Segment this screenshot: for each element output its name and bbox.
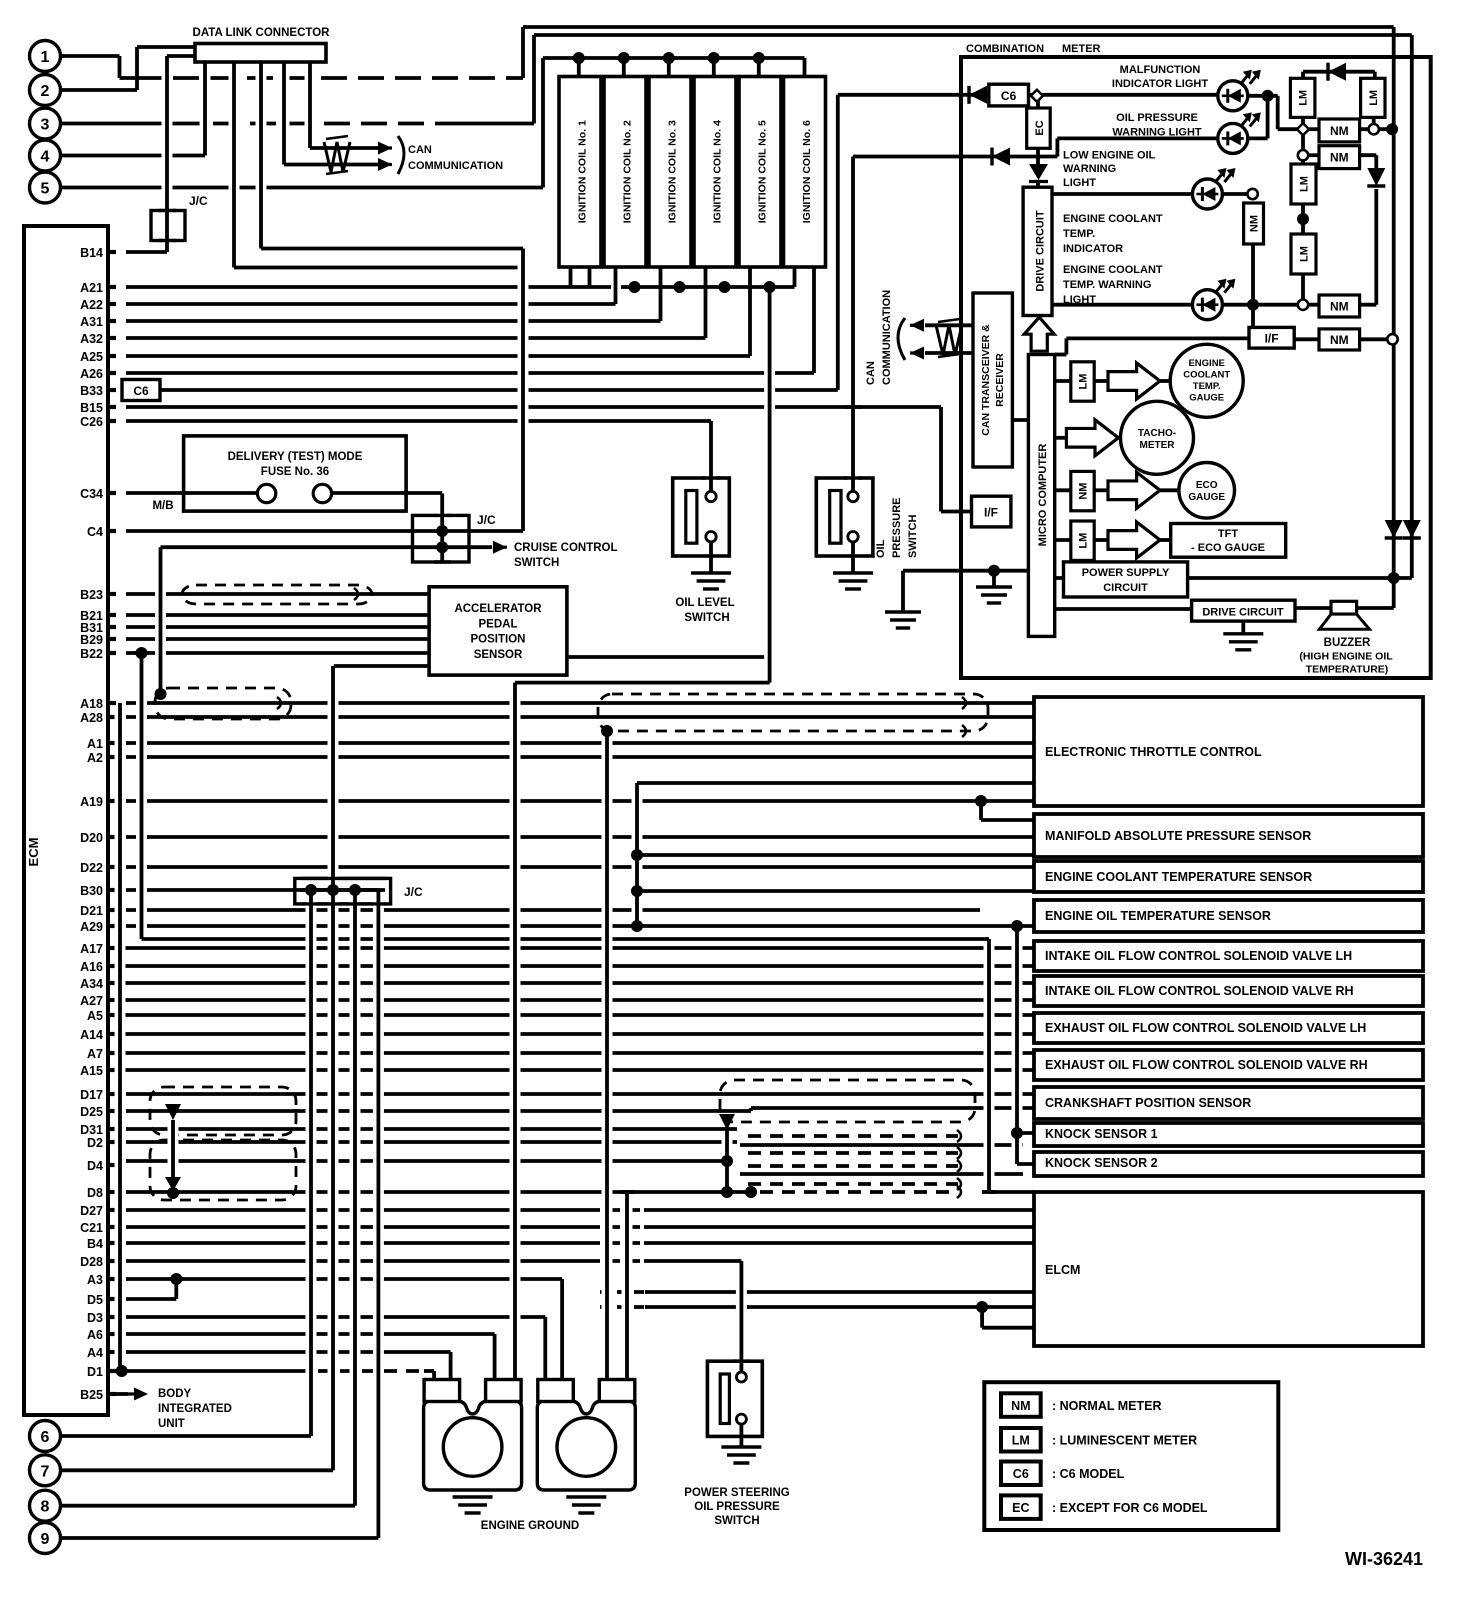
- svg-text:DATA LINK CONNECTOR: DATA LINK CONNECTOR: [193, 27, 331, 39]
- svg-text:CRUISE CONTROL: CRUISE CONTROL: [514, 542, 618, 554]
- svg-text:A34: A34: [80, 977, 103, 991]
- svg-text:A1: A1: [87, 737, 103, 751]
- svg-text:A19: A19: [80, 795, 103, 809]
- svg-text:SWITCH: SWITCH: [714, 1515, 759, 1527]
- svg-text:A26: A26: [80, 367, 103, 381]
- svg-text:D25: D25: [80, 1105, 103, 1119]
- svg-text:ENGINE OIL TEMPERATURE SENSOR: ENGINE OIL TEMPERATURE SENSOR: [1045, 909, 1271, 923]
- svg-text:3: 3: [41, 117, 50, 134]
- svg-text:D1: D1: [87, 1365, 103, 1379]
- svg-text:ENGINE: ENGINE: [1188, 358, 1224, 369]
- svg-text:COMMUNICATION: COMMUNICATION: [881, 290, 893, 385]
- svg-text:LIGHT: LIGHT: [1063, 177, 1096, 189]
- svg-text:D5: D5: [87, 1293, 103, 1307]
- svg-text:FUSE No. 36: FUSE No. 36: [261, 466, 329, 478]
- svg-text:MANIFOLD ABSOLUTE PRESSURE SEN: MANIFOLD ABSOLUTE PRESSURE SENSOR: [1045, 829, 1311, 843]
- svg-text:8: 8: [41, 1499, 50, 1516]
- svg-text:B33: B33: [80, 384, 103, 398]
- svg-text:A21: A21: [80, 281, 103, 295]
- svg-text:9: 9: [41, 1531, 50, 1548]
- svg-text:D28: D28: [80, 1255, 103, 1269]
- svg-text:METER: METER: [1140, 440, 1176, 451]
- svg-text:IGNITION COIL No. 4: IGNITION COIL No. 4: [712, 120, 724, 223]
- svg-text:I/F: I/F: [984, 506, 998, 520]
- svg-text:OIL PRESSURE: OIL PRESSURE: [1116, 112, 1198, 124]
- svg-text:ELECTRONIC THROTTLE CONTROL: ELECTRONIC THROTTLE CONTROL: [1045, 745, 1262, 759]
- svg-text:TACHO-: TACHO-: [1138, 428, 1176, 439]
- svg-text:ENGINE COOLANT: ENGINE COOLANT: [1063, 213, 1163, 225]
- svg-text:D4: D4: [87, 1159, 103, 1173]
- svg-text:A2: A2: [87, 751, 103, 765]
- svg-text:: NORMAL METER: : NORMAL METER: [1052, 1399, 1162, 1413]
- svg-text:IGNITION COIL No. 3: IGNITION COIL No. 3: [667, 120, 679, 223]
- svg-text:CAN: CAN: [865, 361, 877, 385]
- svg-text:A14: A14: [80, 1028, 103, 1042]
- svg-text:C4: C4: [87, 525, 103, 539]
- svg-text:EC: EC: [1012, 1501, 1029, 1515]
- svg-text:B30: B30: [80, 884, 103, 898]
- svg-text:DRIVE CIRCUIT: DRIVE CIRCUIT: [1035, 210, 1047, 292]
- svg-text:C6: C6: [1001, 89, 1017, 103]
- svg-text:SWITCH: SWITCH: [684, 612, 729, 624]
- svg-text:IGNITION COIL No. 1: IGNITION COIL No. 1: [577, 120, 589, 223]
- svg-text:A15: A15: [80, 1064, 103, 1078]
- svg-text:CIRCUIT: CIRCUIT: [1103, 582, 1148, 594]
- svg-text:A28: A28: [80, 711, 103, 725]
- svg-text:MALFUNCTION: MALFUNCTION: [1120, 64, 1201, 76]
- svg-text:C6: C6: [1013, 1467, 1029, 1481]
- svg-text:D2: D2: [87, 1136, 103, 1150]
- svg-text:- ECO GAUGE: - ECO GAUGE: [1191, 542, 1265, 554]
- svg-text:IGNITION COIL No. 6: IGNITION COIL No. 6: [801, 120, 813, 223]
- svg-text:A7: A7: [87, 1047, 103, 1061]
- svg-text:A29: A29: [80, 920, 103, 934]
- svg-text:INTEGRATED: INTEGRATED: [158, 1403, 232, 1415]
- svg-text:SWITCH: SWITCH: [907, 515, 919, 558]
- svg-text:7: 7: [41, 1463, 50, 1480]
- svg-text:WI-36241: WI-36241: [1345, 1549, 1423, 1569]
- svg-text:INDICATOR: INDICATOR: [1063, 243, 1123, 255]
- svg-text:NM: NM: [1330, 124, 1349, 138]
- svg-text:A16: A16: [80, 960, 103, 974]
- svg-text:ECO: ECO: [1196, 480, 1218, 491]
- svg-text:TFT: TFT: [1218, 528, 1238, 540]
- svg-text:DELIVERY (TEST) MODE: DELIVERY (TEST) MODE: [228, 451, 363, 463]
- svg-text:NM: NM: [1330, 151, 1349, 165]
- svg-text:EXHAUST OIL FLOW CONTROL SOLEN: EXHAUST OIL FLOW CONTROL SOLENOID VALVE …: [1045, 1021, 1366, 1035]
- svg-text:B4: B4: [87, 1237, 103, 1251]
- svg-text:I/F: I/F: [1265, 332, 1279, 346]
- svg-text:D3: D3: [87, 1311, 103, 1325]
- svg-text:NM: NM: [1078, 483, 1090, 500]
- svg-text:A32: A32: [80, 332, 103, 346]
- svg-text:D8: D8: [87, 1186, 103, 1200]
- svg-text:NM: NM: [1330, 300, 1349, 314]
- svg-text:D22: D22: [80, 861, 103, 875]
- svg-text:LM: LM: [1078, 374, 1090, 390]
- svg-text:NM: NM: [1249, 215, 1261, 232]
- svg-text:ACCELERATOR: ACCELERATOR: [454, 603, 542, 615]
- svg-text:J/C: J/C: [404, 885, 423, 899]
- svg-text:A18: A18: [80, 697, 103, 711]
- svg-text:GAUGE: GAUGE: [1188, 492, 1225, 503]
- svg-text:INDICATOR LIGHT: INDICATOR LIGHT: [1112, 78, 1208, 90]
- svg-text:6: 6: [41, 1429, 50, 1446]
- svg-text:SENSOR: SENSOR: [474, 649, 523, 661]
- svg-text:GAUGE: GAUGE: [1189, 393, 1224, 404]
- svg-text:LM: LM: [1078, 533, 1090, 549]
- svg-text:1: 1: [41, 49, 50, 66]
- svg-text:C34: C34: [80, 487, 103, 501]
- svg-text:IGNITION COIL No. 2: IGNITION COIL No. 2: [622, 120, 634, 223]
- svg-text:A31: A31: [80, 315, 103, 329]
- svg-text:WARNING: WARNING: [1063, 163, 1116, 175]
- svg-text:(HIGH ENGINE OIL: (HIGH ENGINE OIL: [1299, 651, 1393, 663]
- svg-text:TEMP.: TEMP.: [1063, 228, 1095, 240]
- svg-text:ENGINE GROUND: ENGINE GROUND: [481, 1520, 579, 1532]
- svg-text:D17: D17: [80, 1088, 103, 1102]
- svg-text:UNIT: UNIT: [158, 1418, 185, 1430]
- svg-text:D31: D31: [80, 1123, 103, 1137]
- svg-text:KNOCK SENSOR 1: KNOCK SENSOR 1: [1045, 1127, 1158, 1141]
- svg-text:OIL: OIL: [875, 539, 887, 558]
- svg-text:B22: B22: [80, 647, 103, 661]
- svg-text:: LUMINESCENT METER: : LUMINESCENT METER: [1052, 1434, 1197, 1448]
- svg-text:D20: D20: [80, 831, 103, 845]
- svg-text:WARNING LIGHT: WARNING LIGHT: [1112, 127, 1201, 139]
- svg-text:J/C: J/C: [477, 513, 496, 527]
- svg-text:J/C: J/C: [189, 194, 208, 208]
- svg-text:KNOCK SENSOR 2: KNOCK SENSOR 2: [1045, 1156, 1158, 1170]
- svg-text:BODY: BODY: [158, 1388, 192, 1400]
- svg-text:EC: EC: [1034, 120, 1046, 135]
- svg-text:CAN: CAN: [408, 144, 432, 156]
- svg-text:OIL LEVEL: OIL LEVEL: [675, 597, 734, 609]
- svg-text:LM: LM: [1368, 90, 1380, 106]
- svg-text:A22: A22: [80, 298, 103, 312]
- svg-text:B14: B14: [80, 246, 103, 260]
- svg-text:RECEIVER: RECEIVER: [994, 353, 1006, 407]
- svg-text:BUZZER: BUZZER: [1324, 637, 1371, 649]
- svg-text:OIL PRESSURE: OIL PRESSURE: [694, 1501, 780, 1513]
- svg-text:INTAKE OIL FLOW CONTROL SOLENO: INTAKE OIL FLOW CONTROL SOLENOID VALVE R…: [1045, 984, 1354, 998]
- svg-text:POSITION: POSITION: [471, 634, 526, 646]
- svg-text:A17: A17: [80, 942, 103, 956]
- svg-text:A4: A4: [87, 1346, 103, 1360]
- svg-text:A6: A6: [87, 1328, 103, 1342]
- svg-text:PRESSURE: PRESSURE: [891, 497, 903, 558]
- svg-text:B29: B29: [80, 633, 103, 647]
- svg-text:CRANKSHAFT POSITION SENSOR: CRANKSHAFT POSITION SENSOR: [1045, 1096, 1251, 1110]
- svg-text:POWER SUPPLY: POWER SUPPLY: [1082, 567, 1170, 579]
- svg-text:2: 2: [41, 83, 50, 100]
- svg-text:PEDAL: PEDAL: [479, 618, 518, 630]
- svg-text:IGNITION COIL No. 5: IGNITION COIL No. 5: [757, 120, 769, 223]
- svg-text:LM: LM: [1298, 90, 1310, 106]
- svg-text:B23: B23: [80, 588, 103, 602]
- svg-text:LM: LM: [1299, 176, 1311, 192]
- svg-text:A25: A25: [80, 350, 103, 364]
- svg-text:INTAKE OIL FLOW CONTROL SOLENO: INTAKE OIL FLOW CONTROL SOLENOID VALVE L…: [1045, 949, 1352, 963]
- svg-text:A27: A27: [80, 994, 103, 1008]
- svg-text:LM: LM: [1012, 1434, 1030, 1448]
- svg-text:COOLANT: COOLANT: [1183, 370, 1230, 381]
- svg-text:C21: C21: [80, 1221, 103, 1235]
- svg-text:C6: C6: [133, 384, 149, 398]
- svg-text:TEMP.: TEMP.: [1193, 381, 1221, 392]
- svg-text:4: 4: [41, 149, 50, 166]
- svg-text:LIGHT: LIGHT: [1063, 294, 1096, 306]
- svg-text:DRIVE CIRCUIT: DRIVE CIRCUIT: [1202, 607, 1284, 619]
- svg-text:SWITCH: SWITCH: [514, 557, 559, 569]
- svg-text:A3: A3: [87, 1273, 103, 1287]
- svg-text:D27: D27: [80, 1204, 103, 1218]
- svg-text:EXHAUST OIL FLOW CONTROL SOLEN: EXHAUST OIL FLOW CONTROL SOLENOID VALVE …: [1045, 1058, 1368, 1072]
- svg-text:NM: NM: [1330, 333, 1349, 347]
- svg-text:ENGINE COOLANT TEMPERATURE SEN: ENGINE COOLANT TEMPERATURE SENSOR: [1045, 870, 1312, 884]
- svg-text:LOW ENGINE OIL: LOW ENGINE OIL: [1063, 150, 1156, 162]
- svg-text:ECM: ECM: [26, 838, 41, 867]
- svg-text:A5: A5: [87, 1009, 103, 1023]
- svg-text:MICRO COMPUTER: MICRO COMPUTER: [1037, 444, 1049, 547]
- svg-text:LM: LM: [1299, 246, 1311, 262]
- svg-text:M/B: M/B: [152, 500, 173, 512]
- svg-text:COMMUNICATION: COMMUNICATION: [408, 160, 503, 172]
- svg-text:: EXCEPT FOR C6 MODEL: : EXCEPT FOR C6 MODEL: [1052, 1501, 1208, 1515]
- svg-text:ELCM: ELCM: [1045, 1263, 1080, 1277]
- svg-text:B25: B25: [80, 1388, 103, 1402]
- svg-text:: C6 MODEL: : C6 MODEL: [1052, 1467, 1125, 1481]
- svg-text:D21: D21: [80, 904, 103, 918]
- svg-text:CAN TRANSCEIVER &: CAN TRANSCEIVER &: [980, 324, 992, 436]
- svg-text:TEMP. WARNING: TEMP. WARNING: [1063, 279, 1151, 291]
- svg-text:TEMPERATURE): TEMPERATURE): [1306, 663, 1389, 675]
- svg-text:COMBINATION: COMBINATION: [966, 43, 1044, 55]
- svg-text:POWER STEERING: POWER STEERING: [684, 1487, 789, 1499]
- svg-text:B15: B15: [80, 401, 103, 415]
- svg-text:METER: METER: [1062, 43, 1101, 55]
- svg-text:ENGINE COOLANT: ENGINE COOLANT: [1063, 264, 1163, 276]
- svg-text:5: 5: [41, 181, 50, 198]
- svg-text:C26: C26: [80, 415, 103, 429]
- svg-text:NM: NM: [1011, 1399, 1030, 1413]
